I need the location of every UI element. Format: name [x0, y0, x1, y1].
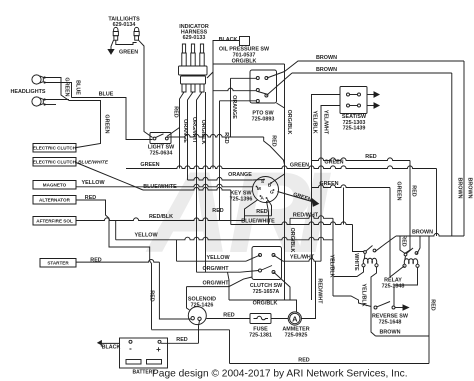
- svg-text:725-1381: 725-1381: [249, 332, 272, 338]
- svg-text:YEL/WHT: YEL/WHT: [290, 255, 315, 261]
- svg-text:YELLOW: YELLOW: [134, 233, 158, 239]
- svg-text:725-0925: 725-0925: [285, 332, 308, 338]
- svg-text:GREEN: GREEN: [396, 181, 402, 200]
- svg-text:BLUE: BLUE: [75, 80, 81, 95]
- svg-text:ELECTRIC CLUTCH: ELECTRIC CLUTCH: [33, 146, 77, 151]
- svg-text:YELLOW: YELLOW: [206, 255, 230, 261]
- svg-text:ORANGE: ORANGE: [182, 119, 188, 143]
- svg-text:BLUE/WHITE: BLUE/WHITE: [78, 160, 109, 166]
- svg-text:ORG/BLK: ORG/BLK: [289, 228, 295, 253]
- svg-text:725-1396: 725-1396: [230, 196, 253, 202]
- svg-text:BROWN: BROWN: [412, 230, 433, 236]
- svg-text:629-0133: 629-0133: [183, 35, 206, 41]
- svg-text:+: +: [156, 345, 161, 354]
- svg-text:RED: RED: [298, 358, 309, 364]
- svg-text:YEL/BLK: YEL/BLK: [361, 283, 367, 306]
- svg-text:ALTERNATOR: ALTERNATOR: [39, 198, 71, 203]
- svg-text:B: B: [268, 182, 272, 188]
- svg-text:RED/WHT: RED/WHT: [293, 213, 319, 219]
- svg-text:YELLOW: YELLOW: [81, 180, 105, 186]
- svg-text:RED/WHT: RED/WHT: [317, 278, 323, 304]
- svg-text:RED: RED: [149, 290, 155, 301]
- svg-text:M: M: [257, 186, 261, 192]
- svg-text:RED: RED: [256, 209, 267, 215]
- svg-text:G: G: [270, 189, 274, 195]
- svg-text:ORG/WHT: ORG/WHT: [191, 117, 197, 144]
- svg-text:A: A: [292, 315, 298, 324]
- svg-text:725-1657A: 725-1657A: [253, 289, 280, 295]
- svg-text:STARTER: STARTER: [47, 261, 69, 266]
- svg-text:GREEN: GREEN: [64, 77, 70, 96]
- svg-text:WHITE: WHITE: [353, 253, 359, 271]
- svg-text:725-1648: 725-1648: [379, 319, 402, 325]
- svg-text:ORANGE: ORANGE: [228, 172, 252, 178]
- svg-text:BROWN: BROWN: [457, 178, 463, 199]
- svg-text:701-0537: 701-0537: [233, 52, 256, 58]
- svg-text:RED: RED: [223, 313, 234, 319]
- svg-text:RED: RED: [271, 135, 277, 146]
- svg-text:RED: RED: [173, 106, 179, 117]
- svg-text:BLUE: BLUE: [99, 92, 114, 98]
- svg-text:RED: RED: [411, 185, 417, 196]
- svg-text:YEL/WHT: YEL/WHT: [323, 110, 329, 135]
- svg-text:725-0893: 725-0893: [252, 116, 275, 122]
- svg-text:BROWN: BROWN: [380, 330, 401, 336]
- svg-text:RED: RED: [90, 258, 101, 264]
- svg-text:BROWN: BROWN: [316, 67, 337, 73]
- svg-text:GREEN: GREEN: [140, 162, 159, 168]
- svg-text:RED: RED: [212, 208, 223, 214]
- svg-text:YEL/BLK: YEL/BLK: [312, 110, 318, 133]
- svg-text:BLACK: BLACK: [102, 345, 121, 351]
- svg-text:HEADLIGHTS: HEADLIGHTS: [10, 89, 45, 95]
- svg-text:ORG/WHT: ORG/WHT: [202, 266, 229, 272]
- svg-text:BLUE/WHITE: BLUE/WHITE: [241, 219, 275, 225]
- svg-text:BROWN: BROWN: [316, 55, 337, 61]
- svg-text:ORG/WHT: ORG/WHT: [202, 280, 229, 286]
- svg-text:725-0634: 725-0634: [150, 150, 173, 156]
- svg-text:GREEN: GREEN: [119, 50, 138, 56]
- svg-text:ORG/BLK: ORG/BLK: [253, 301, 278, 307]
- svg-text:A: A: [260, 195, 264, 201]
- svg-text:ORG/BLK: ORG/BLK: [286, 110, 292, 135]
- svg-text:BLACK: BLACK: [219, 37, 238, 43]
- svg-text:GREEN: GREEN: [290, 163, 309, 169]
- svg-text:ELECTRIC CLUTCH: ELECTRIC CLUTCH: [33, 160, 77, 165]
- svg-text:RED: RED: [430, 299, 436, 310]
- svg-text:AFTERFIRE SOL: AFTERFIRE SOL: [36, 219, 73, 224]
- svg-text:725-1439: 725-1439: [343, 126, 366, 132]
- svg-text:YEL/BLK: YEL/BLK: [329, 254, 335, 277]
- svg-text:RED: RED: [401, 235, 407, 246]
- svg-text:BROWN: BROWN: [467, 178, 473, 199]
- svg-text:-: -: [129, 344, 132, 353]
- svg-text:RED: RED: [365, 154, 376, 160]
- svg-text:Page design © 2004-2017 by ARI: Page design © 2004-2017 by ARI Network S…: [152, 369, 408, 380]
- svg-text:RED/BLK: RED/BLK: [149, 214, 173, 220]
- svg-text:GREEN: GREEN: [104, 114, 110, 133]
- svg-text:RED: RED: [176, 337, 187, 343]
- svg-text:ORG/BLK: ORG/BLK: [200, 120, 206, 145]
- svg-text:ORANGE: ORANGE: [231, 95, 237, 119]
- svg-text:MAGNETO: MAGNETO: [43, 183, 67, 188]
- svg-text:RED: RED: [223, 132, 229, 143]
- svg-text:725-1848: 725-1848: [382, 283, 405, 289]
